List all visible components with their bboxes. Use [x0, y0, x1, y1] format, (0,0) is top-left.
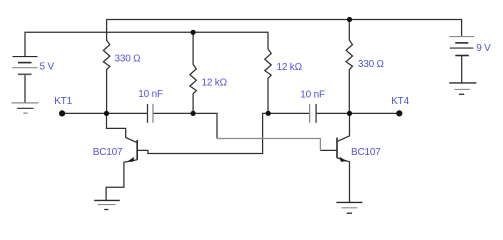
svg-text:10 nF: 10 nF — [300, 89, 325, 100]
svg-text:330 Ω: 330 Ω — [115, 54, 142, 65]
svg-text:KT1: KT1 — [54, 96, 72, 107]
svg-text:BC107: BC107 — [351, 147, 381, 158]
svg-text:BC107: BC107 — [93, 147, 123, 158]
svg-text:12 kΩ: 12 kΩ — [277, 62, 303, 73]
svg-text:9 V: 9 V — [476, 43, 491, 54]
svg-text:KT4: KT4 — [391, 96, 409, 107]
svg-text:330 Ω: 330 Ω — [358, 59, 385, 70]
svg-text:12 kΩ: 12 kΩ — [202, 77, 228, 88]
svg-text:5 V: 5 V — [40, 61, 55, 72]
svg-text:10 nF: 10 nF — [138, 89, 163, 100]
